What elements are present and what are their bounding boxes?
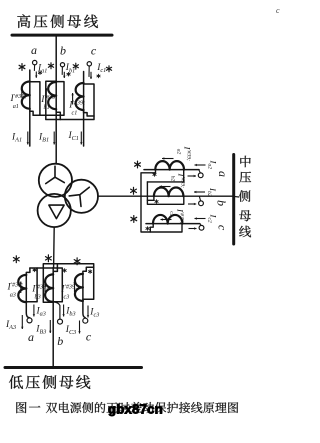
arrow I'a3 <box>20 282 22 294</box>
wire CT b secondary bottom jog <box>56 109 60 119</box>
wire CT b3 secondary <box>43 264 93 302</box>
HV busbar label 高压侧母线 <box>17 14 30 28</box>
transformer T1 HV winding circle <box>39 164 72 197</box>
terminal circle b3 <box>58 319 63 324</box>
arrow IC3 <box>79 321 81 334</box>
wire phase a HV primary <box>29 70 31 146</box>
wire phase a MV primary <box>144 169 199 171</box>
wire CT c secondary bottom jog <box>84 110 94 116</box>
CT 2LH a winding <box>155 161 184 169</box>
arrow I'a2 <box>162 158 174 160</box>
polarity dot CT a2 <box>154 173 156 177</box>
label I'b2 <box>169 173 186 189</box>
arrow I'c1 <box>72 93 74 105</box>
terminal circle b2 <box>199 201 204 206</box>
label I'a2 <box>175 146 192 162</box>
CT 1LH b winding <box>48 82 56 109</box>
CT 1LH c winding <box>76 83 84 110</box>
terminal circle a2 <box>198 173 203 178</box>
arrow into b2 terminal <box>188 203 196 205</box>
polarity dot CT a3 <box>34 268 36 272</box>
HV busbar <box>12 34 112 37</box>
wire CT a3 secondary bottom <box>26 268 37 302</box>
CT 3LH a winding <box>18 275 26 302</box>
wire phase c MV primary <box>146 223 200 225</box>
wire CT c3 secondary jog <box>83 267 94 274</box>
polarity mark MV a <box>137 161 139 168</box>
MV busbar label 中压侧母线 <box>240 156 250 168</box>
polarity mark LV c <box>76 258 78 265</box>
svg-text:c: c <box>86 330 92 344</box>
label I'c2 <box>168 208 185 224</box>
wire CT b3 secondary jog <box>53 264 57 275</box>
arrow I'b2 <box>160 186 171 188</box>
svg-text:c: c <box>276 6 280 15</box>
CT 1LH a winding <box>22 82 30 109</box>
terminal circle c3 <box>83 318 88 323</box>
arrow Ia1 <box>35 72 37 78</box>
terminal circle c2 <box>199 225 204 230</box>
wire CT c2 secondary jog <box>150 224 153 232</box>
svg-text:b: b <box>57 334 63 348</box>
arrow Ic3 <box>87 306 89 318</box>
LV busbar label 低压侧母线 <box>9 375 23 389</box>
polarity dot CT c2 <box>147 227 149 231</box>
polarity mark MV b <box>133 187 135 194</box>
wire CT b secondary left <box>46 81 94 119</box>
caption text <box>46 403 57 414</box>
svg-text:c: c <box>216 225 230 231</box>
polarity dot CT a <box>39 71 41 75</box>
transformer T1 LV winding circle <box>38 194 71 227</box>
wire phase b LV primary <box>52 268 54 367</box>
arrow IB1 <box>53 132 55 145</box>
wire CT b2 secondary jog <box>147 196 154 200</box>
arrow I'c2 <box>161 219 172 221</box>
CT 2LH c winding <box>153 215 182 224</box>
arrow Ia2 <box>195 164 206 166</box>
arrow I'b3 <box>44 281 46 292</box>
svg-text:a: a <box>216 171 230 177</box>
polarity mark MV c <box>133 216 135 223</box>
svg-text:b: b <box>60 44 66 58</box>
arrow I'c3 <box>74 281 76 292</box>
wire CT a secondary bottom jog <box>30 109 33 116</box>
arrow Ia3 <box>33 305 35 317</box>
wire CT a2 secondary top <box>147 170 183 182</box>
wire phase c HV primary <box>83 72 85 147</box>
arrow into a2 terminal <box>188 175 197 177</box>
polarity dot CT b3 <box>64 269 66 273</box>
svg-text:a: a <box>31 43 37 57</box>
wire CT a3 secondary jog <box>26 268 30 275</box>
arrow into c2 terminal <box>189 228 197 230</box>
svg-text:gbx87cn: gbx87cn <box>108 402 163 417</box>
polarity mark LV b <box>47 255 49 262</box>
transformer T1 MV winding circle <box>65 180 98 213</box>
arrow Ib1 <box>63 72 65 78</box>
arrow Ib3 <box>63 305 65 317</box>
polarity dot CT c <box>98 74 100 78</box>
wire delta link a3-b3 <box>30 268 62 302</box>
terminal circle a3 <box>27 318 32 323</box>
polarity mark HV after Ia1 <box>50 63 52 69</box>
wire CT a2 secondary outer loop <box>141 170 182 232</box>
terminal circle c1 <box>87 62 91 66</box>
polarity mark LV a <box>15 256 17 263</box>
CT 3LH c winding <box>75 274 83 301</box>
arrow IB3 <box>49 320 51 333</box>
wire CT a secondary top <box>30 82 40 116</box>
MV busbar <box>232 155 235 245</box>
terminal circle a1 <box>33 60 37 64</box>
wye symbol HV winding <box>46 166 65 183</box>
wire phase b stub past MV busbar <box>233 195 239 198</box>
arrow I'b1 <box>45 88 47 97</box>
wire phase c LV primary <box>83 274 85 318</box>
arrow IA3 <box>21 315 23 329</box>
caption 图一 <box>16 402 26 413</box>
wire delta link a-b <box>33 82 64 116</box>
polarity dot CT b <box>68 72 70 76</box>
wire phase b HV primary <box>55 36 57 164</box>
delta symbol LV winding <box>49 205 64 219</box>
polarity mark HV a <box>21 64 23 71</box>
LV busbar <box>5 366 142 369</box>
svg-text:a: a <box>28 330 34 344</box>
terminal circle b1 <box>60 63 64 67</box>
wire transformer LV lead <box>53 227 56 267</box>
polarity mark HV after Ic1 <box>108 66 110 72</box>
arrow Ib2 <box>194 191 205 193</box>
wire phase b LV terminal hook <box>53 302 60 319</box>
wire delta link a2-b2 <box>147 182 183 204</box>
wye symbol MV winding <box>69 187 89 206</box>
polarity mark HV after Ib1 <box>75 63 77 69</box>
arrow IA1 <box>27 132 29 145</box>
arrow I'a1 <box>21 88 23 98</box>
wire transformer MV lead <box>98 195 233 197</box>
CT 3LH b winding <box>45 274 53 302</box>
arrow Ic2 <box>195 218 206 220</box>
CT 2LH b winding <box>154 187 184 196</box>
polarity dot CT c3 <box>89 270 91 274</box>
arrow IC1 <box>80 132 82 145</box>
wire phase a LV primary <box>26 275 29 318</box>
svg-text:c: c <box>91 44 97 58</box>
arrow Ic1 <box>90 72 92 79</box>
svg-text:b: b <box>215 200 229 206</box>
polarity dot CT b2 <box>156 200 158 204</box>
